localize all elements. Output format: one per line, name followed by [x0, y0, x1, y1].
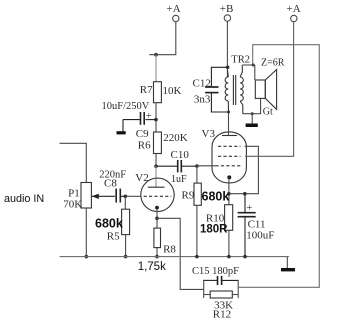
resistor R5: [122, 196, 130, 256]
svg-text:1,75k: 1,75k: [138, 261, 166, 273]
node R6/C10/V2 anode: [154, 164, 158, 168]
svg-text:V2: V2: [135, 172, 148, 184]
node bar right of feedback network: [237, 280, 239, 298]
svg-text:+: +: [247, 203, 253, 214]
svg-text:220K: 220K: [163, 132, 188, 144]
transformer TR2 secondary: [240, 65, 243, 114]
svg-text:C10: C10: [171, 149, 190, 161]
svg-text:180R: 180R: [200, 224, 228, 236]
wire speaker top drop: [254, 65, 256, 80]
wire speaker bottom: [243, 98, 261, 113]
svg-text:audio IN: audio IN: [4, 193, 44, 205]
supply +A left terminal: [149, 15, 179, 54]
ground bus: [60, 256, 289, 258]
svg-text:R6: R6: [138, 140, 151, 152]
svg-text:70K: 70K: [63, 199, 82, 211]
capacitor C11: [238, 194, 256, 257]
node junction +A/R7: [154, 53, 158, 57]
wire feedback to speaker rail: [238, 45, 319, 288]
node R10/bus: [227, 255, 231, 259]
svg-text:100uF: 100uF: [246, 230, 274, 242]
svg-text:R8: R8: [163, 244, 176, 256]
svg-text:+B: +B: [220, 3, 234, 15]
potentiometer P1: [60, 143, 92, 256]
wire R6 to node: [155, 154, 157, 167]
node C11/bus: [243, 255, 247, 259]
capacitor C15: [204, 276, 239, 285]
node secondary bottom / speaker ground tee: [251, 112, 254, 115]
resistor R10: [225, 205, 233, 257]
svg-text:Z=6R: Z=6R: [261, 58, 285, 69]
wire V3 cathode down: [228, 179, 230, 204]
ground (speaker): [251, 114, 253, 124]
node C12 bottom / primary bottom / V3 anode: [227, 111, 230, 114]
svg-text:C15 180pF: C15 180pF: [192, 266, 239, 277]
svg-text:680k: 680k: [202, 190, 230, 204]
svg-text:3n3: 3n3: [194, 94, 211, 106]
wiper arrow of P1: [92, 194, 99, 199]
resistor R9: [194, 166, 201, 257]
wire g2 to +A right: [245, 22, 294, 156]
wire V3 grid g1: [197, 165, 216, 167]
wire g3 to cathode node: [229, 146, 259, 193]
capacitor C9: [123, 112, 156, 131]
wire V2 grid: [125, 195, 141, 197]
resistor R12: [204, 291, 239, 298]
svg-text:10uF/250V: 10uF/250V: [102, 101, 150, 112]
capacitor C8: [91, 189, 125, 203]
node R5/bus: [124, 255, 128, 259]
resistor R6: [154, 132, 162, 154]
wire to R7: [155, 55, 157, 82]
capacitor C12: [205, 67, 228, 112]
svg-text:C9: C9: [136, 128, 149, 140]
resistor R8: [154, 228, 161, 257]
wire +B down to transformer primary: [226, 21, 228, 77]
transformer TR2 core: [232, 75, 234, 105]
svg-text:C8: C8: [104, 178, 117, 190]
wire feedback from cathode: [157, 218, 204, 289]
node cathode/R8/feedback: [155, 217, 159, 221]
svg-text:R12: R12: [213, 309, 231, 321]
node R8/bus: [155, 255, 159, 259]
svg-text:+A: +A: [167, 3, 181, 15]
pentode V3: [212, 132, 246, 183]
svg-text:+: +: [146, 111, 152, 122]
svg-text:680k: 680k: [95, 217, 123, 231]
node cathode/R10/g3: [227, 192, 231, 196]
transformer TR2 primary: [225, 70, 228, 112]
ground symbol at bus: [286, 257, 288, 268]
svg-text:R9: R9: [182, 190, 195, 202]
ground (C9): [117, 131, 126, 134]
supply +A right terminal: [291, 15, 297, 21]
wire V3 anode up to transformer: [228, 112, 230, 136]
wire V2 cathode: [156, 210, 158, 229]
capacitor C10: [156, 160, 197, 172]
supply +B terminal: [224, 15, 230, 21]
resistor R7: [154, 82, 162, 103]
speaker: [255, 70, 276, 110]
wire: [149, 22, 176, 55]
svg-text:V3: V3: [202, 128, 216, 140]
node C9 junction: [154, 118, 158, 122]
node speaker top / rail tee: [252, 64, 255, 67]
wire secondary top to speaker: [242, 64, 255, 66]
node P1/bus: [85, 255, 89, 259]
wire V2 anode feed: [155, 166, 157, 187]
node R9/bus: [195, 255, 199, 259]
node C11 tap: [243, 192, 247, 196]
svg-text:R7: R7: [140, 84, 153, 96]
svg-text:C12: C12: [193, 78, 211, 90]
svg-text:Gt: Gt: [263, 107, 273, 118]
node bar left of feedback network: [203, 280, 205, 298]
svg-text:R5: R5: [107, 231, 120, 243]
svg-text:10K: 10K: [163, 85, 182, 97]
wire R7 to R6: [155, 103, 157, 132]
svg-text:1uF: 1uF: [171, 174, 187, 185]
svg-text:TR2: TR2: [231, 55, 250, 66]
node C10/R9/V3 grid: [195, 164, 199, 168]
node C8/R5/V2 grid: [124, 195, 128, 199]
node +B/C12: [226, 66, 230, 70]
svg-text:+A: +A: [287, 3, 301, 15]
triode V2: [141, 178, 174, 211]
